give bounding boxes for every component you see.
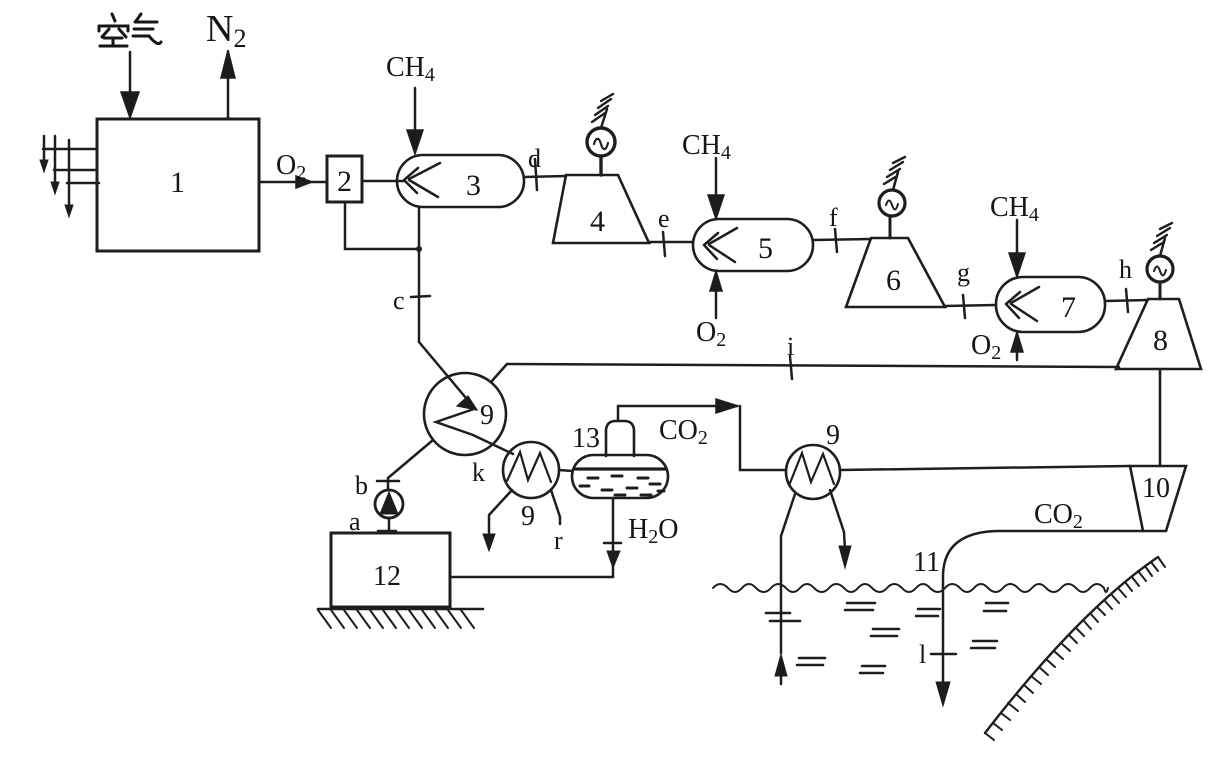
svg-text:a: a [349, 507, 361, 536]
svg-text:11: 11 [913, 547, 940, 578]
svg-text:10: 10 [1142, 473, 1170, 504]
svg-text:c: c [393, 286, 405, 315]
svg-text:7: 7 [1061, 291, 1076, 324]
svg-text:f: f [829, 203, 838, 232]
svg-text:i: i [787, 332, 794, 361]
svg-text:h: h [1119, 255, 1132, 284]
svg-text:e: e [658, 204, 670, 233]
svg-text:1: 1 [170, 166, 185, 199]
svg-text:4: 4 [590, 205, 605, 238]
svg-text:g: g [957, 258, 970, 287]
svg-text:k: k [472, 458, 485, 487]
svg-text:r: r [554, 526, 563, 555]
svg-text:9: 9 [826, 420, 840, 451]
svg-text:b: b [355, 471, 368, 500]
svg-text:13: 13 [572, 423, 600, 454]
svg-text:d: d [528, 144, 541, 173]
svg-text:8: 8 [1153, 324, 1168, 357]
svg-text:9: 9 [480, 400, 494, 431]
svg-text:5: 5 [758, 232, 773, 265]
svg-text:l: l [919, 640, 926, 669]
svg-text:12: 12 [373, 561, 401, 592]
svg-text:9: 9 [521, 501, 535, 532]
svg-text:2: 2 [337, 165, 352, 198]
svg-text:6: 6 [886, 264, 901, 297]
svg-text:3: 3 [466, 169, 481, 202]
